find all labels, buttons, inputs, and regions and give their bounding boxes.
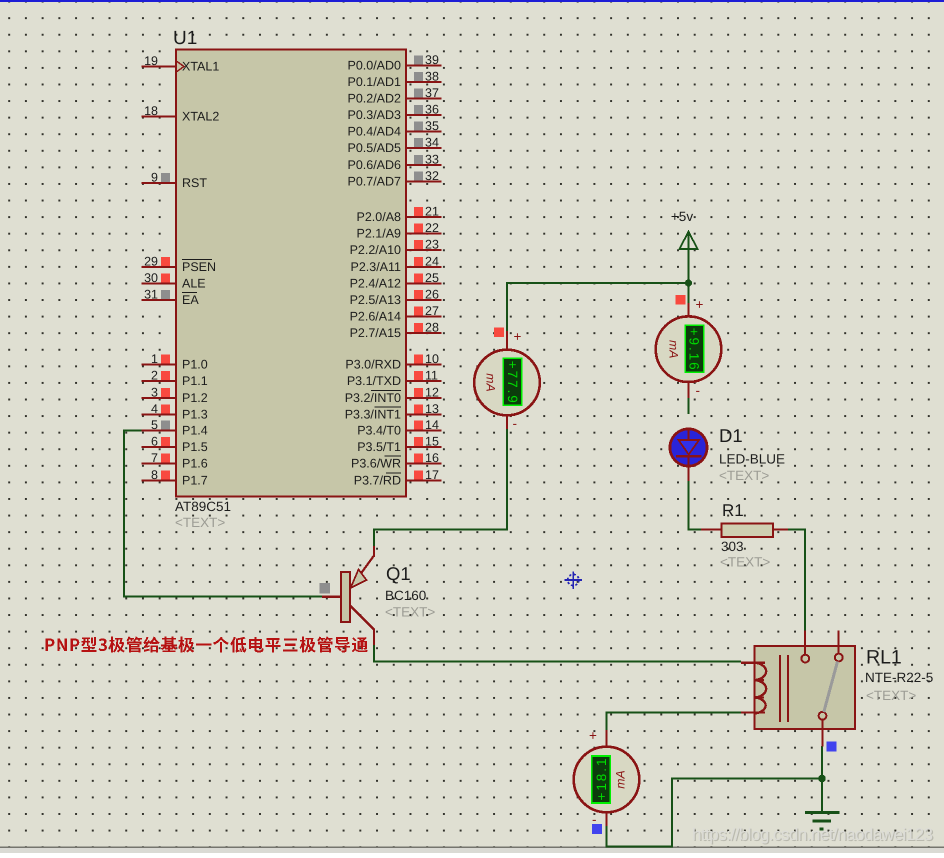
svg-text:<TEXT>: <TEXT>	[385, 605, 435, 620]
svg-text:35: 35	[425, 119, 439, 133]
svg-text:P1.0: P1.0	[182, 357, 208, 371]
svg-text:P2.1/A9: P2.1/A9	[357, 226, 402, 240]
pin 18 XTAL2 (left)	[142, 104, 220, 123]
svg-text:AT89C51: AT89C51	[175, 499, 231, 514]
pin 5 P1.4 (left)	[142, 418, 208, 437]
RL1 coil leads	[741, 663, 765, 713]
svg-text:P1.2: P1.2	[182, 391, 208, 405]
pin 21 P2.0/A8 (right)	[357, 205, 442, 224]
svg-text:11: 11	[425, 369, 438, 383]
resistor R1 303 body	[722, 524, 774, 538]
svg-text:5: 5	[151, 418, 158, 432]
pin 34 P0.5/AD5 (right)	[347, 136, 441, 155]
svg-text:LED-BLUE: LED-BLUE	[719, 452, 785, 467]
svg-text:BC160: BC160	[385, 588, 426, 603]
ground symbol	[805, 813, 840, 830]
svg-text:P3.1/TXD: P3.1/TXD	[347, 374, 401, 388]
svg-text:P2.6/A14: P2.6/A14	[350, 309, 401, 323]
svg-text:-: -	[696, 383, 701, 398]
svg-text:P0.3/AD3: P0.3/AD3	[347, 108, 401, 122]
svg-text:P2.5/A13: P2.5/A13	[350, 293, 401, 307]
wire +5v power rail down to node and ammeter2	[687, 248, 689, 304]
bottom window edge	[0, 847, 944, 849]
svg-text:25: 25	[425, 271, 439, 285]
relay RL1 NTE-R22-5 body	[755, 646, 856, 729]
svg-text:P2.2/A10: P2.2/A10	[350, 243, 401, 257]
svg-text:7: 7	[151, 451, 158, 465]
pin 22 P2.1/A9 (right)	[357, 221, 442, 240]
svg-text:14: 14	[425, 418, 439, 432]
pin 16 P3.6/WR (right)	[351, 451, 442, 470]
svg-text:17: 17	[425, 468, 439, 482]
wire ammeter3 bottom loop to ground node	[607, 779, 823, 847]
RL1 pin stubs	[805, 631, 839, 747]
svg-text:P0.2/AD2: P0.2/AD2	[347, 91, 401, 105]
RL1 coil	[756, 663, 767, 714]
svg-text:-: -	[592, 812, 597, 827]
svg-text:P0.6/AD6: P0.6/AD6	[347, 158, 401, 172]
svg-text:P3.2/INT0: P3.2/INT0	[345, 391, 401, 405]
pin 9 RST (left)	[142, 171, 208, 190]
svg-text:31: 31	[144, 288, 158, 302]
svg-text:P3.6/WR: P3.6/WR	[351, 456, 401, 470]
svg-text:RL1: RL1	[866, 647, 902, 669]
pin 19 XTAL1 (left)	[142, 54, 220, 73]
svg-text:U1: U1	[173, 28, 197, 49]
wire ammeter2 bottom to LED D1 top	[687, 397, 689, 414]
pin 3 P1.2 (left)	[142, 386, 208, 405]
svg-text:39: 39	[425, 53, 439, 67]
ammeter AM1 +77.9mA	[474, 350, 540, 416]
pin 1 P1.0 (left)	[142, 352, 208, 371]
svg-text:P2.3/A11: P2.3/A11	[350, 260, 401, 274]
ammeter2 logic state square (red)	[676, 295, 686, 304]
svg-text:P1.3: P1.3	[182, 407, 208, 421]
pin 29 PSEN (left)	[142, 255, 217, 274]
ammeter3 pin stubs	[605, 730, 607, 826]
top window edge line	[0, 0, 944, 2]
wire ammeter1 top to +5v node	[507, 283, 689, 332]
pin 11 P3.1/TXD (right)	[347, 369, 442, 388]
pin 26 P2.5/A13 (right)	[350, 288, 442, 307]
svg-text:<TEXT>: <TEXT>	[866, 688, 916, 703]
svg-text:P3.0/RXD: P3.0/RXD	[345, 357, 401, 371]
pin 39 P0.0/AD0 (right)	[347, 53, 441, 72]
IC U1 AT89C51 body	[176, 50, 406, 497]
RL1 core lines	[780, 655, 788, 722]
svg-text:XTAL2: XTAL2	[182, 109, 219, 123]
svg-text:3: 3	[151, 386, 158, 400]
svg-text:36: 36	[425, 103, 439, 117]
svg-text:R1: R1	[722, 501, 744, 520]
pin 30 ALE (left)	[142, 271, 206, 290]
svg-text:PSEN: PSEN	[182, 260, 216, 274]
pin 23 P2.2/A10 (right)	[350, 238, 442, 257]
svg-text:https://blog.csdn.net/naodawei: https://blog.csdn.net/naodawei123	[692, 825, 933, 844]
ammeter3 plus/minus marks	[589, 728, 597, 827]
svg-text:23: 23	[425, 238, 439, 252]
svg-text:P1.5: P1.5	[182, 440, 208, 454]
pin 7 P1.6 (left)	[142, 451, 208, 470]
svg-text:26: 26	[425, 288, 439, 302]
pin 31 EA (left)	[142, 288, 200, 307]
svg-text:P3.3/INT1: P3.3/INT1	[345, 407, 401, 421]
wire LED D1 bottom to R1 left	[689, 481, 702, 530]
svg-text:P3.5/T1: P3.5/T1	[357, 440, 401, 454]
svg-text:37: 37	[425, 86, 439, 100]
svg-text:28: 28	[425, 321, 439, 335]
junction node at +5v rail	[685, 279, 692, 286]
ammeter3 logic state square (blue)	[592, 824, 602, 834]
pin 32 P0.7/AD7 (right)	[347, 169, 441, 188]
svg-text:P1.4: P1.4	[182, 423, 208, 437]
ammeter AM3 +18.1mA	[574, 747, 640, 813]
svg-text:16: 16	[425, 451, 439, 465]
ammeter2 pin stubs	[687, 303, 689, 398]
svg-text:P1.6: P1.6	[182, 456, 208, 470]
svg-text:29: 29	[144, 255, 158, 269]
ammeter1 plus/minus marks	[513, 329, 522, 431]
pin 27 P2.6/A14 (right)	[350, 304, 442, 323]
pin 2 P1.1 (left)	[142, 369, 208, 388]
pin 14 P3.4/T0 (right)	[357, 418, 441, 437]
svg-text:24: 24	[425, 255, 439, 269]
wire R1 right down to relay coil common pin	[788, 530, 805, 632]
RL1 pin logic state square (blue)	[827, 742, 837, 752]
svg-text:10: 10	[425, 352, 439, 366]
svg-text:+: +	[514, 329, 522, 344]
pin 15 P3.5/T1 (right)	[357, 435, 441, 454]
pin 12 P3.2/INT0 (right)	[345, 386, 442, 405]
svg-text:303: 303	[721, 539, 744, 554]
pin 8 P1.7 (left)	[142, 468, 208, 487]
svg-text:P2.4/A12: P2.4/A12	[350, 276, 401, 290]
svg-text:27: 27	[425, 304, 439, 318]
svg-text:P1.1: P1.1	[182, 374, 208, 388]
svg-text:D1: D1	[719, 425, 743, 446]
svg-text:P0.5/AD5: P0.5/AD5	[347, 141, 401, 155]
pin 25 P2.4/A12 (right)	[350, 271, 442, 290]
wire from U1 pin5 P1.4 to Q1 base	[124, 431, 322, 597]
svg-text:P3.7/RD: P3.7/RD	[354, 473, 401, 487]
svg-text:mA: mA	[483, 373, 497, 391]
svg-text:2: 2	[151, 369, 158, 383]
wire relay coil bottom lead to ammeter3 top	[607, 713, 742, 732]
svg-text:34: 34	[425, 136, 439, 150]
pin 33 P0.6/AD6 (right)	[347, 153, 441, 172]
svg-text:+77.9: +77.9	[505, 361, 520, 403]
pin 17 P3.7/RD (right)	[354, 468, 442, 487]
svg-text:38: 38	[425, 70, 439, 84]
svg-text:-: -	[513, 416, 518, 431]
svg-text:P0.7/AD7: P0.7/AD7	[347, 174, 401, 188]
pin 10 P3.0/RXD (right)	[345, 352, 441, 371]
wire Q1 collector to relay coil top lead	[374, 644, 741, 662]
svg-text:8: 8	[151, 468, 158, 482]
svg-text:4: 4	[151, 402, 158, 416]
svg-text:33: 33	[425, 153, 439, 167]
svg-text:NTE-R22-5: NTE-R22-5	[865, 670, 933, 685]
ammeter AM2 +9.16mA	[656, 316, 722, 382]
svg-text:P3.4/T0: P3.4/T0	[357, 423, 401, 437]
svg-text:Q1: Q1	[386, 563, 411, 584]
annotation text: PNP transistor base low level note	[46, 637, 368, 653]
origin crosshair marker	[565, 571, 583, 589]
svg-text:mA: mA	[614, 770, 628, 788]
svg-text:P2.7/A15: P2.7/A15	[350, 326, 401, 340]
svg-text:18: 18	[144, 104, 158, 118]
junction node at ground net	[818, 775, 826, 783]
svg-text:22: 22	[425, 221, 439, 235]
ammeter2 plus/minus marks	[696, 297, 704, 398]
svg-text:13: 13	[425, 402, 439, 416]
svg-text:P0.1/AD1: P0.1/AD1	[347, 75, 401, 89]
svg-text:P1.7: P1.7	[182, 473, 208, 487]
svg-text:mA: mA	[666, 340, 680, 358]
svg-text:<TEXT>: <TEXT>	[720, 555, 770, 570]
pin 4 P1.3 (left)	[142, 402, 208, 421]
Q1 base logic state square (gray)	[320, 583, 331, 594]
transistor Q1 BC160 (PNP)	[322, 546, 375, 645]
pin 36 P0.3/AD3 (right)	[347, 103, 441, 122]
svg-text:P0.4/AD4: P0.4/AD4	[347, 124, 401, 138]
svg-text:15: 15	[425, 435, 439, 449]
svg-text:+: +	[696, 297, 704, 312]
svg-text:30: 30	[144, 271, 158, 285]
svg-text:12: 12	[425, 386, 439, 400]
RL1 switch contacts	[801, 654, 842, 720]
pin 6 P1.5 (left)	[142, 435, 208, 454]
pin 13 P3.3/INT1 (right)	[345, 402, 442, 421]
LED D1 LED-BLUE	[670, 429, 707, 481]
svg-text:6: 6	[151, 435, 158, 449]
wire relay switch pin down to ground	[821, 746, 823, 811]
svg-text:+: +	[589, 728, 597, 743]
svg-text:+18.1: +18.1	[594, 759, 609, 801]
wire Q1 emitter to ammeter1 bottom	[374, 428, 507, 548]
pin 28 P2.7/A15 (right)	[350, 321, 442, 340]
RL1 switch arm	[824, 662, 838, 713]
pin 24 P2.3/A11 (right)	[350, 255, 441, 274]
ammeter1 logic state square (red)	[494, 328, 504, 337]
svg-text:+9.16: +9.16	[687, 328, 702, 370]
svg-text:XTAL1: XTAL1	[182, 59, 219, 73]
svg-text:ALE: ALE	[182, 276, 206, 290]
svg-text:P2.0/A8: P2.0/A8	[357, 210, 402, 224]
R1 pin stubs	[701, 528, 788, 530]
pin 38 P0.1/AD1 (right)	[347, 70, 441, 89]
pin 37 P0.2/AD2 (right)	[347, 86, 441, 105]
svg-text:19: 19	[144, 54, 158, 68]
pin 35 P0.4/AD4 (right)	[347, 119, 441, 138]
power +5v symbol	[680, 232, 698, 250]
svg-text:32: 32	[425, 169, 439, 183]
svg-text:RST: RST	[182, 176, 207, 190]
svg-text:<TEXT>: <TEXT>	[175, 515, 225, 530]
svg-text:P0.0/AD0: P0.0/AD0	[347, 58, 401, 72]
svg-text:9: 9	[151, 171, 158, 185]
svg-text:1: 1	[151, 352, 158, 366]
svg-text:EA: EA	[182, 293, 199, 307]
svg-text:+5v: +5v	[671, 209, 693, 224]
svg-text:<TEXT>: <TEXT>	[719, 468, 769, 483]
ammeter1 pin stubs	[506, 331, 508, 429]
svg-text:21: 21	[425, 205, 439, 219]
